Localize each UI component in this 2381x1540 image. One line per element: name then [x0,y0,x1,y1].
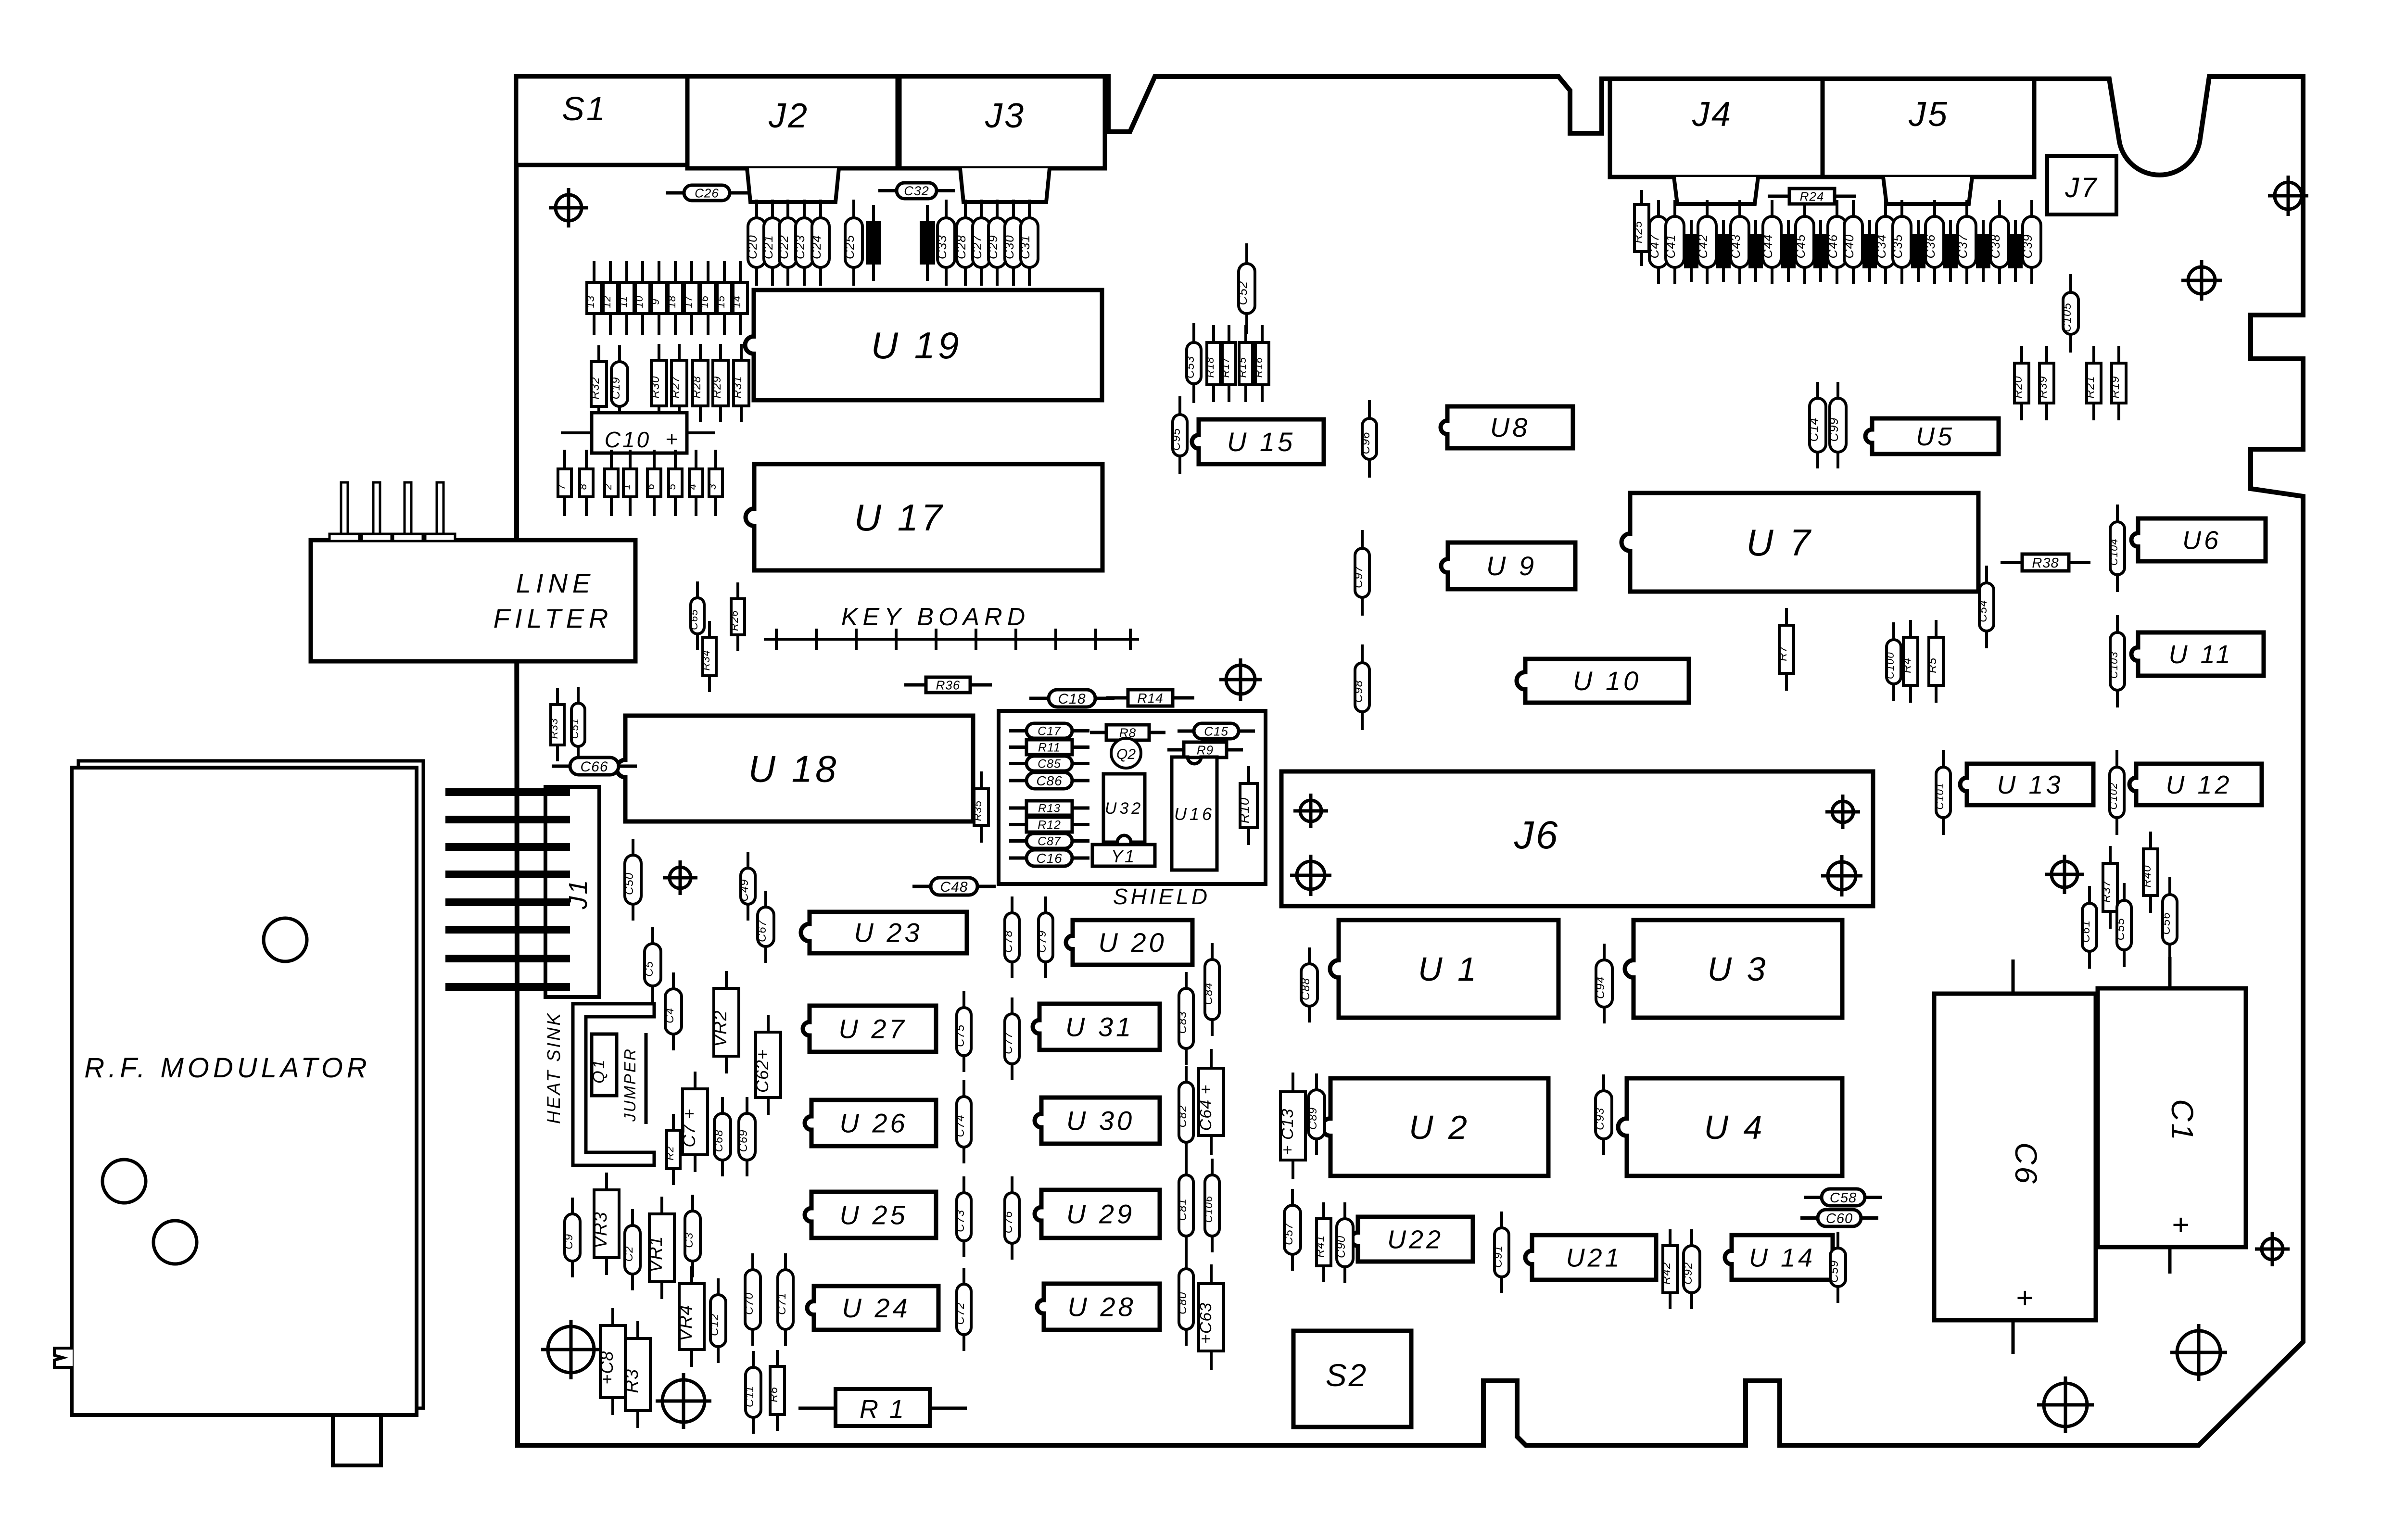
resistor R15 [1236,325,1253,402]
svg-text:U 27: U 27 [838,1014,907,1044]
connector J4 [1610,79,1823,204]
IC U13 [1960,764,2093,805]
connector J1 [445,787,599,997]
svg-text:C1: C1 [2165,1099,2200,1142]
svg-text:C77: C77 [1002,1031,1015,1054]
capacitor C89 [1306,1073,1325,1155]
IC U28 [1037,1284,1160,1330]
svg-text:R26: R26 [728,610,740,631]
svg-text:C11: C11 [743,1386,756,1407]
IC U31 [1033,1004,1160,1050]
svg-text:U 18: U 18 [748,747,839,790]
capacitor C7 [679,1072,708,1172]
capacitor C75 [954,991,971,1072]
capacitor C41 [1663,200,1684,284]
svg-text:R24: R24 [1800,189,1824,203]
capacitor C58 [1804,1189,1882,1206]
svg-text:R: R [1862,251,1872,258]
svg-text:C48: C48 [940,879,968,895]
svg-text:C92: C92 [1682,1262,1695,1285]
svg-text:C101: C101 [1934,783,1946,810]
svg-text:U16: U16 [1174,804,1215,824]
capacitor C11 [743,1351,761,1434]
svg-text:8: 8 [577,483,589,490]
svg-text:KEY BOARD: KEY BOARD [841,603,1030,631]
capacitor C74 [954,1080,971,1163]
mounting hole above shield [1219,658,1262,701]
mounting hole top-left [549,188,588,227]
IC U16 [1172,757,1217,870]
svg-text:C43: C43 [1728,234,1743,259]
capacitor C86 [1009,772,1089,789]
line filter module [311,482,635,661]
svg-text:11: 11 [617,296,629,308]
regulator VR1 [646,1197,674,1299]
svg-text:U 30: U 30 [1066,1106,1135,1136]
svg-text:R14: R14 [1137,691,1163,706]
resistor R33 [548,688,564,761]
svg-text:C32: C32 [904,184,929,198]
IC U29 [1035,1190,1160,1238]
mounting hole bottom-left 2 [656,1373,711,1429]
svg-text:3: 3 [706,483,718,490]
capacitor C102 [2107,750,2124,835]
svg-text:+: + [2164,1216,2197,1235]
svg-text:C81: C81 [1176,1198,1189,1221]
svg-text:U 20: U 20 [1098,927,1166,958]
capacitor C66 [552,757,637,775]
svg-text:C91: C91 [1492,1245,1505,1268]
svg-text:C35: C35 [1890,234,1905,259]
capacitor C9 [562,1198,580,1277]
capacitor C103 [2108,615,2125,707]
resistor R9 [1167,742,1243,757]
svg-text:U 29: U 29 [1066,1199,1135,1229]
svg-text:R17: R17 [1219,357,1231,378]
capacitor C39 [2020,200,2041,284]
svg-text:Q2: Q2 [1116,746,1136,762]
switch S1 [516,76,687,165]
board outline [516,76,2303,1445]
resistor x6 [1862,220,1876,282]
capacitor C30 [1002,200,1022,286]
svg-text:C46: C46 [1825,234,1840,259]
svg-text:C33: C33 [935,235,949,259]
capacitor C32 [878,183,955,199]
resistor R7 [1776,608,1794,691]
svg-text:C49: C49 [738,879,751,901]
svg-text:12: 12 [601,295,613,308]
mounting hole bottom-right 1 [2170,1324,2227,1381]
svg-text:C85: C85 [1038,757,1061,771]
svg-text:R25: R25 [1632,221,1645,243]
diode D18 [666,261,683,335]
IC U14 [1725,1235,1833,1280]
svg-text:R9: R9 [1197,743,1214,757]
capacitor C96 [1359,400,1377,478]
svg-text:U 2: U 2 [1409,1109,1470,1146]
capacitor C18 [1029,690,1115,707]
IC U11 [2131,632,2264,676]
resistor R19 [2109,346,2126,420]
svg-text:C71: C71 [775,1292,788,1315]
regulator VR3 [591,1173,619,1275]
svg-text:R20: R20 [2012,376,2025,398]
svg-text:U5: U5 [1916,422,1955,451]
svg-text:R15: R15 [1236,357,1248,378]
svg-text:U21: U21 [1566,1243,1622,1272]
capacitor C29 [986,200,1006,286]
capacitor C62 [752,1015,781,1115]
svg-text:LINE: LINE [516,568,595,598]
capacitor C19 [609,345,628,423]
svg-text:6: 6 [645,483,657,490]
svg-text:R5: R5 [1926,657,1939,673]
IC U15 [1192,419,1324,464]
svg-text:C58: C58 [1830,1190,1857,1206]
svg-text:U 11: U 11 [2168,640,2233,669]
capacitor C98 [1352,644,1369,730]
IC U19 [745,290,1102,400]
capacitor C21 [761,200,781,286]
svg-text:U8: U8 [1490,412,1531,442]
svg-text:C78: C78 [1002,930,1015,953]
diode D10 [633,261,650,335]
IC U10 [1517,659,1689,703]
resistor R17 [1219,325,1236,402]
diode D14 [731,261,747,335]
svg-text:C53: C53 [1184,356,1197,379]
resistor R11 [1009,740,1089,755]
svg-text:C51: C51 [569,718,581,739]
capacitor C13 [1279,1073,1305,1179]
svg-text:J2: J2 [768,97,809,135]
capacitor C60 [1800,1210,1878,1226]
svg-text:17: 17 [682,295,694,308]
svg-text:R2: R2 [664,1146,676,1161]
svg-text:U32: U32 [1105,799,1143,818]
diode D13 [584,261,601,335]
svg-text:C56: C56 [2160,912,2173,934]
svg-text:R34: R34 [700,650,712,670]
svg-text:C83: C83 [1176,1011,1189,1034]
svg-text:C22: C22 [776,235,791,259]
svg-text:SHIELD: SHIELD [1113,884,1210,909]
svg-text:R21: R21 [2084,376,2097,398]
svg-text:U 19: U 19 [871,324,962,366]
capacitor C69 [737,1097,755,1176]
svg-text:U 4: U 4 [1704,1109,1765,1146]
capacitor C90 [1335,1202,1353,1283]
IC U24 [807,1286,938,1330]
svg-text:J5: J5 [1908,95,1949,134]
svg-text:2: 2 [602,483,614,490]
svg-text:C60: C60 [1826,1211,1853,1226]
heat sink [544,1004,654,1165]
svg-text:R22: R22 [866,238,876,254]
svg-text:C68: C68 [712,1129,725,1152]
capacitor C50 [623,839,641,921]
svg-text:C97: C97 [1352,565,1365,588]
resistor R16 [1253,325,1269,402]
svg-text:HEAT SINK: HEAT SINK [544,1011,564,1124]
svg-text:R27: R27 [669,376,682,399]
IC U27 [803,1006,936,1052]
svg-text:U 28: U 28 [1067,1292,1136,1322]
svg-text:C16: C16 [1036,851,1062,866]
capacitor C20 [745,200,765,286]
svg-text:U 15: U 15 [1227,427,1295,457]
svg-text:C102: C102 [2107,783,2119,810]
svg-text:C30: C30 [1002,235,1016,259]
capacitor C48 [912,878,996,895]
capacitor C6 [1934,959,2096,1354]
svg-text:C6: C6 [2009,1142,2043,1186]
svg-text:FILTER: FILTER [494,603,613,633]
resistor R29 [710,344,728,422]
capacitor C8 [597,1308,625,1415]
capacitor C37 [1955,200,1976,284]
capacitor C104 [2108,505,2125,592]
capacitor C97 [1352,530,1369,616]
capacitor C17 [1009,723,1089,738]
IC U3 [1625,920,1842,1018]
svg-text:R16: R16 [1253,357,1265,378]
capacitor C2 [622,1209,640,1290]
svg-text:U 3: U 3 [1708,950,1769,988]
svg-text:1: 1 [621,483,633,490]
svg-text:U 10: U 10 [1573,666,1641,696]
svg-text:R29: R29 [710,376,723,398]
svg-text:C39: C39 [2020,234,2035,259]
svg-text:C27: C27 [970,235,984,259]
svg-text:R23: R23 [920,238,930,254]
capacitor C106 [1203,1159,1219,1252]
svg-text:U 7: U 7 [1746,521,1813,564]
svg-text:C50: C50 [623,872,636,895]
capacitor C70 [743,1253,760,1346]
svg-text:C18: C18 [1058,691,1086,707]
capacitor C49 [738,852,755,921]
svg-text:J7: J7 [2064,172,2098,203]
svg-text:C86: C86 [1036,773,1062,788]
IC U7 [1621,493,1978,592]
capacitor C77 [1002,997,1019,1080]
diode D12 [601,261,618,335]
resistor R28 [690,344,708,422]
svg-text:7: 7 [555,483,567,490]
capacitor C35 [1890,200,1911,284]
svg-text:R35: R35 [972,800,984,821]
mounting hole J6 bottom-right [1821,855,1862,896]
svg-text:C41: C41 [1663,234,1678,259]
svg-text:R37: R37 [2100,880,2113,903]
svg-text:C106: C106 [1203,1196,1215,1223]
resistor R24 [1768,189,1856,204]
svg-text:C103: C103 [2108,651,2120,679]
capacitor C43 [1728,200,1749,284]
capacitor C56 [2160,877,2177,961]
svg-text:J3: J3 [985,97,1026,135]
svg-text:+C63: +C63 [1197,1302,1215,1344]
capacitor C25 [842,200,862,286]
resistor R1 [798,1389,967,1426]
capacitor C36 [1923,200,1944,284]
capacitor C53 [1184,323,1201,403]
svg-text:R41: R41 [1314,1235,1327,1258]
svg-text:U 12: U 12 [2166,770,2232,799]
svg-text:C87: C87 [1038,835,1061,848]
capacitor C34 [1874,200,1895,284]
capacitor C71 [775,1253,793,1346]
capacitor C22 [776,200,797,286]
svg-text:C15: C15 [1204,724,1228,738]
svg-text:C26: C26 [695,186,719,200]
svg-text:R33: R33 [548,718,560,739]
svg-text:C38: C38 [1988,234,2002,259]
resistor R26 [728,582,745,651]
capacitor C63 [1197,1264,1224,1370]
svg-text:C54: C54 [1976,600,1989,622]
resistor R5 [1926,620,1943,703]
capacitor C24 [809,200,829,286]
svg-text:C10: C10 [605,427,651,452]
svg-text:C69: C69 [737,1129,750,1152]
IC U20 [1066,920,1192,965]
mounting hole bottom-right 2 [2037,1376,2094,1433]
svg-text:U 31: U 31 [1065,1012,1134,1042]
IC U2 [1322,1078,1548,1176]
svg-text:U 25: U 25 [839,1200,908,1230]
transistor Q2 [1111,738,1141,768]
svg-text:R: R [1716,251,1726,258]
svg-text:R3: R3 [622,1369,642,1393]
capacitor C46 [1825,200,1846,284]
svg-text:C42: C42 [1696,234,1710,259]
resistor R36 [904,677,992,693]
resistor R4 [1900,620,1918,703]
mounting hole right small [2255,1232,2290,1266]
capacitor C52 [1235,243,1255,334]
IC U8 [1441,406,1573,448]
svg-text:C55: C55 [2114,918,2127,940]
diode D9 [649,261,666,335]
connector J3 [899,76,1105,202]
resistor R32 [589,345,607,423]
svg-text:VR3: VR3 [591,1212,611,1249]
connector J5 [1823,79,2034,204]
svg-text:C19: C19 [609,377,622,399]
svg-text:18: 18 [666,295,678,308]
capacitor C87 [1009,833,1089,848]
capacitor C1 [2098,957,2246,1274]
svg-text:C4: C4 [663,1008,676,1023]
connector J6 [1281,771,1873,906]
mounting hole J6 top-left [1293,794,1328,828]
diode D8 [577,450,593,516]
svg-text:C7 +: C7 + [679,1109,699,1148]
svg-text:U22: U22 [1387,1225,1444,1254]
resistor R31 [731,344,749,422]
capacitor C61 [2079,886,2097,969]
diode D6 [645,450,661,516]
svg-text:C57: C57 [1282,1222,1295,1245]
connector J2 [687,76,898,202]
svg-text:C64 +: C64 + [1197,1085,1215,1131]
svg-text:R6: R6 [767,1387,780,1402]
svg-text:C79: C79 [1036,930,1049,953]
svg-text:C47: C47 [1647,234,1661,258]
connector J7 [2047,156,2116,215]
jumper [621,1033,646,1124]
svg-text:R.F. MODULATOR: R.F. MODULATOR [84,1052,370,1084]
svg-text:15: 15 [715,295,727,308]
resistor R40 [2140,832,2158,913]
diode D4 [686,450,703,516]
diode D1 [621,450,637,516]
capacitor C100 [1884,622,1901,701]
resistor x1 [1684,220,1697,282]
capacitor C95 [1170,396,1187,474]
svg-text:C73: C73 [954,1210,967,1232]
svg-text:S2: S2 [1326,1357,1368,1393]
svg-text:R13: R13 [1038,802,1061,815]
svg-text:C20: C20 [745,235,760,259]
shield box [999,711,1266,909]
IC U26 [805,1100,936,1146]
svg-text:R: R [1911,251,1921,258]
resistor R37 [2100,846,2117,929]
svg-text:R: R [1684,251,1694,258]
svg-text:R: R [1813,251,1823,258]
capacitor C16 [1009,850,1089,866]
capacitor C3 [683,1195,700,1277]
diode D15 [715,261,732,335]
capacitor C83 [1176,972,1193,1065]
svg-text:C88: C88 [1299,978,1312,1000]
resistor R10 [1237,766,1257,845]
svg-text:C105: C105 [2061,303,2074,332]
capacitor C45 [1793,200,1814,284]
mounting hole J6 bottom-left [1290,855,1331,896]
capacitor C28 [954,200,974,286]
svg-text:4: 4 [686,483,698,490]
svg-text:R28: R28 [690,376,703,398]
svg-text:C14: C14 [1806,417,1821,442]
mounting hole top-right 1 [2268,176,2308,216]
resistor R21 [2084,346,2101,420]
svg-text:C45: C45 [1793,234,1808,259]
svg-text:C24: C24 [809,235,823,259]
svg-text:R32: R32 [589,377,602,399]
svg-text:C9: C9 [562,1234,575,1250]
svg-text:R: R [1781,251,1791,258]
resistor R42 [1660,1229,1677,1309]
capacitor C47 [1647,200,1668,284]
IC U4 [1618,1078,1842,1176]
capacitor C14 [1806,382,1826,468]
IC U1 [1330,920,1558,1018]
capacitor C54 [1976,566,1994,648]
capacitor C79 [1036,896,1053,978]
svg-text:C82: C82 [1176,1105,1189,1127]
IC U17 [746,464,1102,570]
svg-text:C36: C36 [1923,234,1938,259]
IC U6 [2131,518,2266,561]
capacitor C76 [1002,1176,1019,1260]
capacitor C94 [1594,944,1612,1023]
capacitor C55 [2114,883,2131,967]
